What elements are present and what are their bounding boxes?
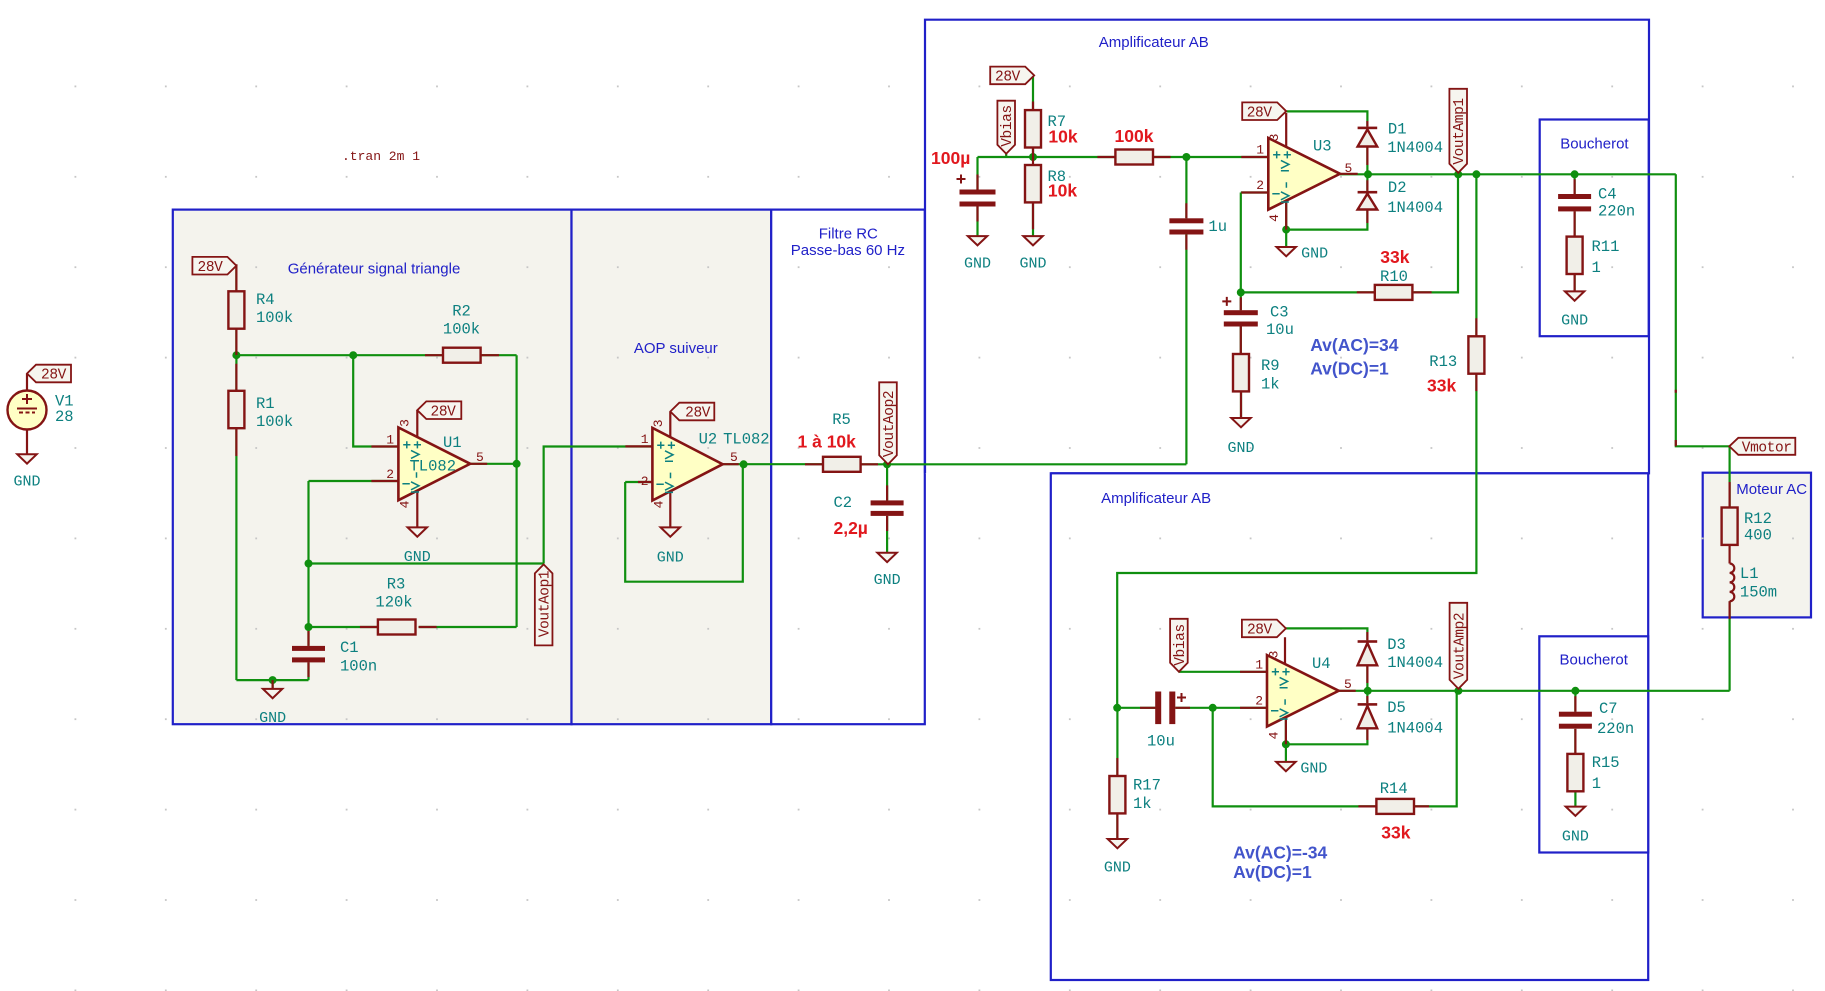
svg-text:10k: 10k <box>1048 126 1077 146</box>
svg-text:D1: D1 <box>1388 121 1407 139</box>
svg-text:GND: GND <box>1104 860 1131 877</box>
svg-text:R11: R11 <box>1592 238 1620 256</box>
svg-text:28V: 28V <box>431 404 457 420</box>
svg-text:5: 5 <box>1344 677 1352 692</box>
svg-text:3: 3 <box>1267 651 1282 659</box>
svg-text:120k: 120k <box>375 594 412 612</box>
svg-text:GND: GND <box>1561 313 1588 330</box>
svg-text:GND: GND <box>1301 246 1328 263</box>
svg-text:33k: 33k <box>1427 376 1456 396</box>
svg-text:GND: GND <box>657 550 684 567</box>
svg-text:4: 4 <box>398 500 413 508</box>
svg-text:220n: 220n <box>1597 720 1634 738</box>
svg-text:1: 1 <box>1592 775 1601 793</box>
svg-text:U1: U1 <box>443 434 462 452</box>
svg-text:1k: 1k <box>1261 376 1280 394</box>
svg-text:2: 2 <box>1255 694 1263 709</box>
svg-text:R12: R12 <box>1744 510 1772 528</box>
svg-text:1: 1 <box>1256 143 1264 158</box>
svg-text:100n: 100n <box>340 658 377 676</box>
svg-text:C1: C1 <box>340 639 359 657</box>
svg-text:100µ: 100µ <box>931 148 970 168</box>
svg-text:AOP suiveur: AOP suiveur <box>634 340 718 357</box>
svg-text:5: 5 <box>730 450 738 465</box>
svg-text:3: 3 <box>398 419 413 427</box>
svg-text:Vbias: Vbias <box>1000 105 1016 147</box>
svg-text:4: 4 <box>1267 214 1282 222</box>
svg-text:1: 1 <box>1592 259 1601 277</box>
svg-text:GND: GND <box>1300 761 1327 778</box>
svg-text:28V: 28V <box>198 260 224 276</box>
svg-text:4: 4 <box>652 500 667 508</box>
svg-text:Av(AC)=34: Av(AC)=34 <box>1310 335 1399 355</box>
svg-text:1k: 1k <box>1133 795 1152 813</box>
svg-text:28: 28 <box>55 408 74 426</box>
svg-text:1u: 1u <box>1208 218 1227 236</box>
svg-text:VoutAmp1: VoutAmp1 <box>1452 98 1468 164</box>
svg-text:GND: GND <box>404 549 431 566</box>
svg-text:Boucherot: Boucherot <box>1560 652 1629 669</box>
svg-text:28V: 28V <box>41 368 67 384</box>
svg-text:3: 3 <box>651 419 666 427</box>
svg-text:10u: 10u <box>1266 321 1294 339</box>
svg-text:1N4004: 1N4004 <box>1387 139 1443 157</box>
svg-text:Générateur signal triangle: Générateur signal triangle <box>288 261 461 278</box>
svg-text:100k: 100k <box>1115 126 1154 146</box>
svg-text:1: 1 <box>386 433 394 448</box>
svg-text:Filtre RC: Filtre RC <box>819 226 878 243</box>
svg-text:28V: 28V <box>995 70 1021 86</box>
svg-text:D5: D5 <box>1387 699 1406 717</box>
svg-text:100k: 100k <box>256 413 293 431</box>
svg-text:100k: 100k <box>256 309 293 327</box>
svg-text:33k: 33k <box>1380 247 1409 267</box>
svg-text:5: 5 <box>1345 161 1353 176</box>
svg-text:TL082: TL082 <box>723 431 770 449</box>
svg-text:U3: U3 <box>1313 138 1332 156</box>
svg-text:1N4004: 1N4004 <box>1387 720 1443 738</box>
svg-text:2: 2 <box>641 474 649 489</box>
svg-text:VoutAmp2: VoutAmp2 <box>1452 613 1468 679</box>
svg-text:2,2µ: 2,2µ <box>833 518 867 538</box>
svg-text:Vmotor: Vmotor <box>1742 441 1792 457</box>
svg-text:C7: C7 <box>1599 700 1618 718</box>
svg-text:28V: 28V <box>1247 105 1273 121</box>
svg-text:28V: 28V <box>1247 623 1273 639</box>
svg-text:150m: 150m <box>1740 584 1777 602</box>
svg-text:VoutAop2: VoutAop2 <box>882 391 898 457</box>
svg-text:28V: 28V <box>685 406 711 422</box>
svg-text:GND: GND <box>874 572 901 589</box>
svg-text:R2: R2 <box>452 303 471 321</box>
svg-text:Amplificateur AB: Amplificateur AB <box>1099 34 1209 51</box>
svg-text:1: 1 <box>641 432 649 447</box>
svg-text:220n: 220n <box>1598 203 1635 221</box>
svg-text:1N4004: 1N4004 <box>1387 654 1443 672</box>
svg-text:Av(DC)=1: Av(DC)=1 <box>1233 862 1312 882</box>
svg-text:R3: R3 <box>387 576 406 594</box>
svg-text:33k: 33k <box>1381 823 1410 843</box>
svg-text:R4: R4 <box>256 291 275 309</box>
svg-text:GND: GND <box>1019 256 1046 273</box>
svg-text:2: 2 <box>1256 178 1264 193</box>
svg-text:GND: GND <box>259 710 286 727</box>
svg-text:4: 4 <box>1267 731 1282 739</box>
svg-text:C2: C2 <box>834 494 853 512</box>
svg-text:Vbias: Vbias <box>1173 624 1189 666</box>
svg-text:Moteur AC: Moteur AC <box>1736 481 1807 498</box>
svg-text:3: 3 <box>1267 134 1282 142</box>
svg-text:D2: D2 <box>1388 179 1407 197</box>
svg-text:R14: R14 <box>1380 780 1408 798</box>
svg-text:U2: U2 <box>699 431 718 449</box>
svg-text:GND: GND <box>1562 829 1589 846</box>
svg-text:R15: R15 <box>1592 754 1620 772</box>
svg-text:R5: R5 <box>832 411 851 429</box>
svg-text:Av(AC)=-34: Av(AC)=-34 <box>1233 842 1327 862</box>
svg-text:C4: C4 <box>1598 186 1617 204</box>
svg-text:GND: GND <box>1227 440 1254 457</box>
svg-text:1 à 10k: 1 à 10k <box>798 432 857 452</box>
svg-text:D3: D3 <box>1387 636 1406 654</box>
svg-text:R10: R10 <box>1380 268 1408 286</box>
svg-text:Av(DC)=1: Av(DC)=1 <box>1310 358 1389 378</box>
svg-text:1N4004: 1N4004 <box>1387 199 1443 217</box>
svg-text:VoutAop1: VoutAop1 <box>538 571 554 637</box>
svg-text:R17: R17 <box>1133 777 1161 795</box>
svg-text:.tran 2m 1: .tran 2m 1 <box>342 149 420 164</box>
svg-text:10k: 10k <box>1048 180 1077 200</box>
svg-text:C3: C3 <box>1270 304 1289 322</box>
svg-text:L1: L1 <box>1740 565 1759 583</box>
svg-text:R13: R13 <box>1429 353 1457 371</box>
svg-text:R9: R9 <box>1261 357 1280 375</box>
svg-text:TL082: TL082 <box>410 458 457 476</box>
svg-text:100k: 100k <box>443 321 480 339</box>
svg-text:U4: U4 <box>1312 655 1331 673</box>
svg-text:Passe-bas 60 Hz: Passe-bas 60 Hz <box>791 242 905 259</box>
svg-text:5: 5 <box>476 450 484 465</box>
svg-text:Boucherot: Boucherot <box>1560 136 1629 153</box>
svg-text:Amplificateur AB: Amplificateur AB <box>1101 490 1211 507</box>
svg-text:2: 2 <box>386 467 394 482</box>
svg-text:10u: 10u <box>1147 733 1175 751</box>
svg-text:GND: GND <box>964 256 991 273</box>
svg-text:GND: GND <box>13 474 40 491</box>
svg-text:1: 1 <box>1255 658 1263 673</box>
svg-text:400: 400 <box>1744 527 1772 545</box>
svg-text:R1: R1 <box>256 395 275 413</box>
